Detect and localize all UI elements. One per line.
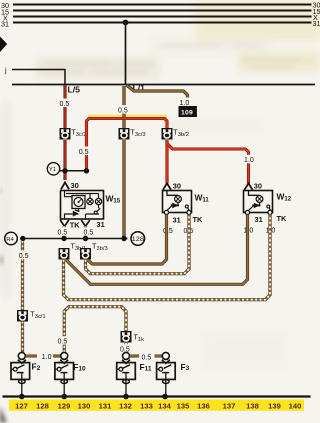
svg-text:TK: TK	[70, 221, 81, 230]
svg-text:0.5: 0.5	[58, 339, 68, 346]
wire: long horizontal interconnect	[12, 84, 315, 86]
wire j horizontal	[12, 70, 65, 85]
svg-text:136: 136	[197, 402, 210, 411]
connection point Y1	[47, 163, 59, 175]
svg-text:131: 131	[99, 402, 112, 411]
wire L/5 maroon (to W15 term 30)	[63, 85, 66, 180]
label 1.0 on W12 red wire	[243, 155, 257, 164]
svg-text:31: 31	[313, 19, 320, 28]
svg-text:1.0: 1.0	[42, 354, 52, 361]
wire: vertical drop from bus 31 node	[125, 23, 127, 85]
left margin index triangle	[0, 37, 7, 53]
svg-text:127: 127	[15, 402, 28, 411]
svg-text:0.5: 0.5	[19, 253, 29, 260]
ground node F11	[123, 394, 129, 400]
svg-text:1.0: 1.0	[180, 100, 190, 107]
ground node F10	[61, 394, 67, 400]
bus line 30	[13, 4, 312, 6]
wire red from T3b/2 down to W11 term 30	[165, 140, 168, 184]
wire W11-TK to T3b/3 (brown/white)	[86, 215, 190, 274]
node dot red/link	[84, 168, 89, 173]
connection point R4	[5, 232, 18, 245]
wire ground bus R4 to 128	[20, 238, 128, 240]
W12 internal lamp	[249, 191, 263, 205]
label 0.5 on T3c/3 wire	[118, 105, 131, 115]
connector T3b/3	[80, 242, 108, 260]
W11 terminal circle 31	[164, 210, 168, 214]
wire stub 0.5 to F3	[155, 355, 163, 358]
W15 internal wiring	[65, 191, 100, 220]
switch F3	[157, 352, 176, 396]
svg-text:137: 137	[223, 402, 236, 411]
wire link Y1 junction	[58, 170, 87, 172]
svg-text:3c/3: 3c/3	[135, 132, 146, 138]
wire W15 31 drop (brown/white)	[84, 227, 87, 239]
connector T3c/2	[60, 128, 87, 140]
label 0.5 TK wire	[57, 227, 70, 236]
svg-text:128: 128	[132, 236, 145, 243]
label 0.5 on L/5 wire	[59, 99, 72, 109]
W15 timer element	[72, 196, 85, 209]
svg-text:TK: TK	[193, 215, 204, 224]
svg-text:3b/2: 3b/2	[178, 132, 189, 138]
lamp box W11	[163, 191, 192, 213]
connector T3b/1	[59, 242, 87, 260]
svg-text:TK: TK	[277, 214, 288, 223]
svg-text:140: 140	[289, 402, 302, 411]
node dot R4	[20, 236, 25, 241]
svg-text:j: j	[4, 68, 7, 75]
svg-text:0.5: 0.5	[79, 149, 89, 156]
svg-text:L/5: L/5	[68, 85, 81, 95]
W12 terminal circle 31	[245, 210, 249, 214]
switch F2	[11, 352, 30, 396]
connection box 109	[179, 106, 197, 117]
wire W12-31 to T3b/1 (brown)	[66, 215, 248, 285]
svg-text:0.5: 0.5	[84, 230, 94, 237]
svg-text:31: 31	[255, 215, 263, 224]
node dot T3c/3 end	[121, 236, 126, 241]
wire stub F11 to 0.5	[130, 355, 139, 358]
W12 internal contact	[248, 203, 270, 211]
svg-text:3c/1: 3c/1	[35, 314, 46, 320]
bottom-left page shadow	[0, 406, 7, 423]
svg-text:R4: R4	[6, 237, 14, 243]
label 0.5 F11 wire	[120, 344, 133, 353]
W15 lamp 1	[87, 198, 93, 204]
svg-text:139: 139	[268, 402, 281, 411]
current track number band	[9, 400, 304, 411]
wire stub F2 to 1.0	[26, 355, 37, 358]
wire F10 to T1k/F11 (brown/white)	[64, 307, 126, 353]
wire W15 TK drop (brown/white)	[62, 227, 65, 239]
connector T3c/3	[119, 128, 146, 140]
wire R4 drop (brown/white) to T3c/1	[21, 241, 24, 352]
terminal arrow W15 TK	[60, 220, 69, 226]
bus line 15	[13, 10, 312, 12]
label 1.0 on 109 wire	[179, 98, 193, 108]
W11 internal lamp	[167, 191, 181, 205]
svg-text:128: 128	[36, 402, 49, 411]
yellow highlighter fringe above red wire	[88, 115, 167, 118]
wire W12-TK to T3b/1 (brown/white)	[64, 215, 271, 300]
label 0.5 F10 wire	[57, 336, 70, 345]
lamp box W12	[244, 191, 273, 213]
bus line 31	[13, 22, 312, 24]
svg-text:133: 133	[140, 402, 153, 411]
svg-text:1k: 1k	[138, 337, 144, 343]
svg-text:0.5: 0.5	[142, 354, 152, 361]
svg-text:30: 30	[71, 181, 79, 190]
terminal arrow into W11 term 30	[163, 183, 171, 189]
terminal arrow into W15 term 30	[61, 182, 69, 189]
connector T1k	[121, 331, 145, 343]
switch F10	[55, 352, 74, 396]
connector T3c/1	[17, 310, 46, 322]
label 0.5 31 wire	[83, 227, 96, 236]
terminal arrow into W12 term 30	[245, 183, 253, 189]
svg-text:138: 138	[246, 402, 259, 411]
svg-text:129: 129	[58, 402, 71, 411]
switch F11	[117, 352, 136, 396]
wire T1k to F11 (brown/white)	[124, 343, 127, 352]
terminal arrow W15 31	[81, 220, 90, 226]
wire L/1 brown branch to connection 109	[127, 85, 188, 107]
svg-text:0.5: 0.5	[60, 101, 70, 108]
svg-text:134: 134	[158, 402, 171, 411]
ground node F2	[19, 394, 25, 400]
connection point 128	[131, 232, 145, 246]
svg-text:130: 130	[78, 402, 91, 411]
wire stub 1.0 to F10	[53, 355, 60, 358]
wire W11-31 to T3b/3 (brown)	[88, 215, 167, 265]
node on bus 31	[123, 20, 129, 26]
svg-text:132: 132	[119, 402, 132, 411]
svg-text:31: 31	[173, 216, 181, 225]
W11 terminal circle TK	[187, 210, 191, 214]
W11 internal contact	[167, 203, 189, 211]
svg-text:135: 135	[177, 402, 190, 411]
label 0.5 R4 wire	[18, 251, 31, 261]
svg-text:3b/3: 3b/3	[96, 246, 107, 252]
bus line X	[13, 16, 312, 18]
svg-text:0.5: 0.5	[118, 108, 128, 115]
svg-text:30: 30	[173, 181, 181, 190]
node dot maroon/link	[62, 168, 67, 173]
ground rail	[3, 395, 311, 397]
svg-text:30: 30	[254, 181, 262, 190]
wire red feed (W15 junction up to T3b/2)	[87, 119, 168, 171]
ground node F3	[162, 394, 168, 400]
wire red branch to W12 term 30	[167, 144, 249, 184]
connector T3b/2	[162, 128, 189, 140]
W12 terminal circle TK	[268, 210, 272, 214]
svg-text:Y1: Y1	[49, 167, 56, 173]
svg-text:1.0: 1.0	[244, 157, 254, 164]
wire L/1 brown drop to T3c/3	[122, 86, 125, 237]
svg-text:31: 31	[97, 220, 105, 229]
svg-text:109: 109	[181, 109, 193, 116]
node dot 31	[83, 236, 88, 241]
W15 contact right	[94, 208, 100, 214]
relay box W15	[61, 191, 104, 220]
label 0.5 on red vertical	[78, 147, 91, 157]
svg-text:31: 31	[1, 20, 9, 29]
W15 lamp 2	[95, 198, 101, 204]
svg-text:0.5: 0.5	[58, 230, 68, 237]
W15 contact left	[73, 210, 80, 217]
node dot TK	[61, 236, 66, 241]
